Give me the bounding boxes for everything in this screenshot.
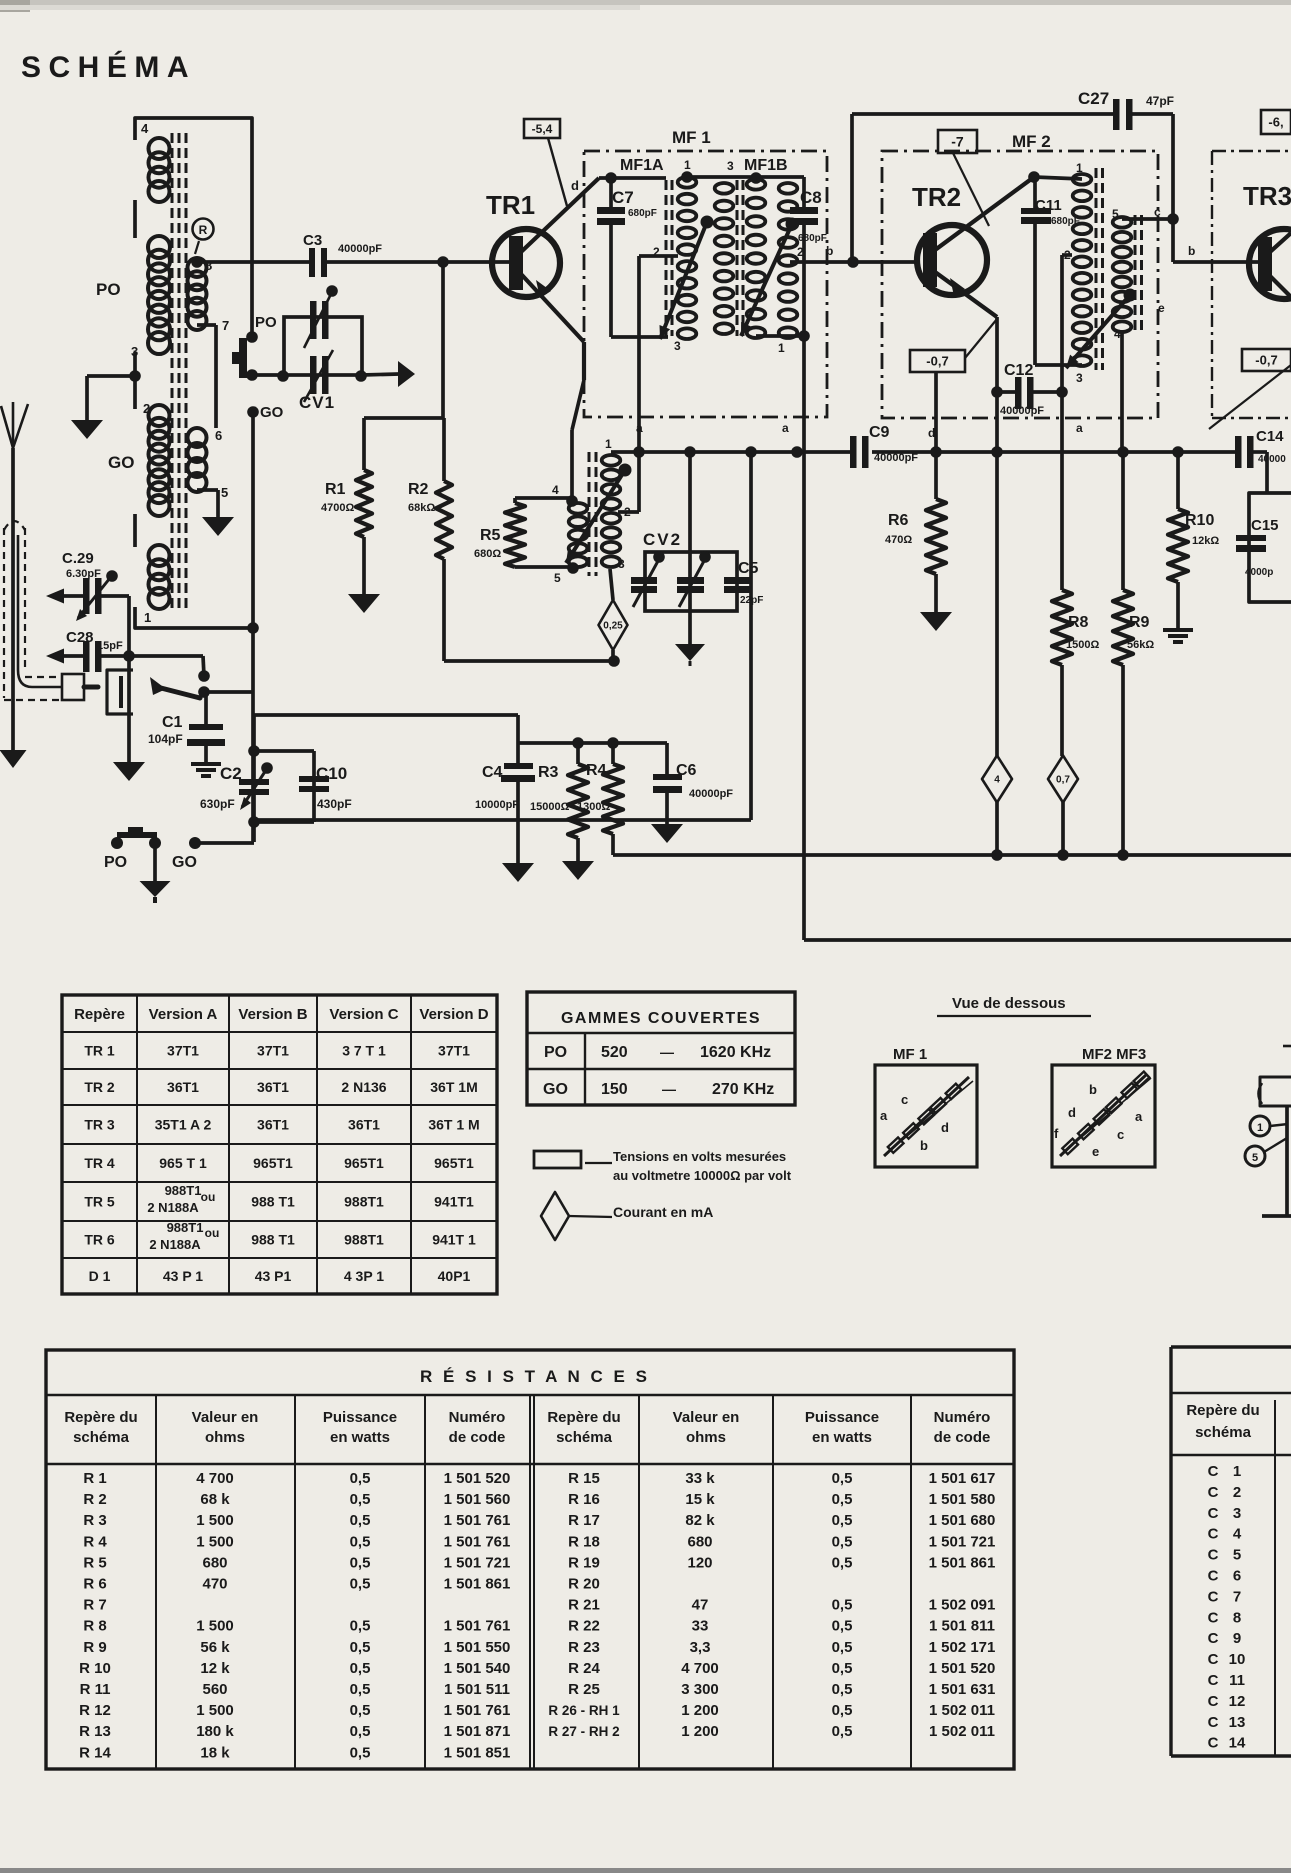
svg-text:68 k: 68 k [200,1491,230,1508]
wire node b to TR2 [790,244,916,268]
svg-text:CV1: CV1 [299,393,335,412]
svg-text:1 200: 1 200 [681,1702,719,1719]
ground under C28 junction [113,762,145,781]
svg-text:R 8: R 8 [83,1618,106,1635]
svg-text:13: 13 [1229,1714,1246,1731]
switch wafer arm [150,677,210,698]
svg-text:b: b [920,1138,928,1153]
wire C27 to c node down [1171,114,1175,262]
wire MF2 pin5 to c node [1122,205,1179,225]
svg-text:1 200: 1 200 [681,1723,719,1740]
transistor TR3 [1243,181,1291,299]
svg-text:0,7: 0,7 [1056,775,1070,786]
svg-text:941T1: 941T1 [434,1194,474,1210]
svg-text:D 1: D 1 [89,1268,111,1284]
svg-text:c: c [1117,1127,1124,1142]
diamond 0,7 current [1048,756,1078,856]
resistor R8 [1052,392,1099,756]
svg-text:R8: R8 [1068,614,1089,631]
svg-text:0,5: 0,5 [832,1681,853,1698]
CV1 lower section [304,350,333,402]
svg-text:0,5: 0,5 [832,1723,853,1740]
svg-text:1 501 861: 1 501 861 [929,1554,996,1571]
svg-text:R9: R9 [1129,614,1150,631]
svg-text:36T1: 36T1 [257,1079,289,1095]
svg-text:180 k: 180 k [196,1723,234,1740]
ground under CV2 [675,611,705,666]
svg-text:TR 4: TR 4 [84,1155,115,1171]
svg-text:TR 5: TR 5 [84,1194,115,1210]
svg-text:680Ω: 680Ω [474,548,501,560]
svg-text:12kΩ: 12kΩ [1192,535,1219,547]
capacitor C29 variable [46,550,129,621]
svg-text:104pF: 104pF [148,732,183,746]
svg-text:C: C [1208,1568,1219,1585]
svg-text:Repère: Repère [74,1006,125,1023]
big box right vertical [254,452,751,820]
svg-text:Puissance: Puissance [805,1409,879,1426]
svg-text:Version B: Version B [238,1006,307,1023]
svg-text:1: 1 [1233,1463,1241,1480]
svg-text:12: 12 [1229,1693,1246,1710]
svg-text:4: 4 [552,483,559,497]
diamond 4 current [982,756,1012,856]
svg-text:R3: R3 [538,764,559,781]
svg-text:0,5: 0,5 [832,1533,853,1550]
svg-text:15pF: 15pF [97,640,123,652]
svg-text:R 4: R 4 [83,1533,107,1550]
svg-text:ou: ou [205,1226,220,1240]
svg-text:8: 8 [1233,1609,1241,1626]
svg-text:965T1: 965T1 [434,1155,474,1171]
svg-text:1: 1 [778,341,785,355]
oscillator transformer [552,437,632,585]
legend voltage box [534,1149,792,1183]
label MF2 [1012,132,1051,151]
svg-text:R 25: R 25 [568,1681,600,1698]
svg-text:R 1: R 1 [83,1470,106,1487]
ground under pin5 [202,517,234,536]
circled R trimmer [193,219,214,255]
svg-text:c: c [901,1092,908,1107]
svg-text:10000pF: 10000pF [475,799,519,811]
svg-text:4 700: 4 700 [681,1660,719,1677]
svg-text:MF 1: MF 1 [672,128,711,147]
svg-text:630pF: 630pF [200,797,235,811]
node d label [571,172,617,193]
C15 box [1249,493,1291,602]
svg-text:2 N188A: 2 N188A [149,1237,201,1252]
svg-text:680pF: 680pF [628,208,657,219]
svg-text:18 k: 18 k [200,1744,230,1761]
svg-text:au voltmetre 10000Ω par volt: au voltmetre 10000Ω par volt [613,1168,792,1183]
svg-text:b: b [1089,1082,1097,1097]
svg-text:C: C [1208,1484,1219,1501]
svg-text:ohms: ohms [686,1429,726,1446]
resistor R9 [1113,452,1154,855]
versions table [62,995,497,1294]
svg-text:C: C [1208,1609,1219,1626]
resistor R10 [1168,452,1219,628]
svg-text:C15: C15 [1251,517,1279,534]
svg-text:3: 3 [727,159,734,173]
svg-text:0,5: 0,5 [350,1660,371,1677]
svg-text:ohms: ohms [205,1429,245,1446]
svg-text:0,5: 0,5 [350,1744,371,1761]
svg-text:1 501 617: 1 501 617 [929,1470,996,1487]
svg-text:3,3: 3,3 [690,1639,711,1656]
svg-text:Repère du: Repère du [1186,1402,1259,1419]
svg-text:0,5: 0,5 [350,1639,371,1656]
coil GO primary upper [149,405,170,516]
svg-text:1: 1 [1076,161,1083,175]
svg-text:68kΩ: 68kΩ [408,502,435,514]
svg-text:GO: GO [172,854,197,871]
svg-text:4: 4 [141,121,149,136]
wire MF1A tap2 [639,256,678,452]
svg-text:TR 2: TR 2 [84,1079,115,1095]
svg-text:1 501 520: 1 501 520 [444,1470,511,1487]
transistor TR1 [486,178,666,342]
svg-text:PO: PO [104,854,127,871]
transformer MF2 [1064,161,1142,385]
svg-text:R: R [199,223,208,237]
svg-text:MF2 MF3: MF2 MF3 [1082,1046,1146,1063]
svg-text:988T1: 988T1 [344,1232,384,1248]
wire GO column [247,412,259,842]
svg-text:0,5: 0,5 [832,1470,853,1487]
svg-text:C7: C7 [612,188,634,207]
svg-text:1: 1 [1257,1122,1263,1134]
wire pin8 to C3 [191,256,310,268]
svg-text:1 501 761: 1 501 761 [444,1512,511,1529]
wire d column [928,372,936,452]
svg-text:a: a [1135,1109,1143,1124]
resistor R6 [885,452,946,613]
svg-text:988T1: 988T1 [167,1220,204,1235]
svg-text:R 19: R 19 [568,1554,600,1571]
svg-text:1: 1 [684,158,691,172]
svg-text:3 7 T 1: 3 7 T 1 [342,1043,386,1059]
svg-text:988T1: 988T1 [165,1183,202,1198]
svg-text:Numéro: Numéro [934,1409,991,1426]
svg-text:430pF: 430pF [317,797,352,811]
svg-text:C5: C5 [738,560,759,577]
svg-text:1 501 761: 1 501 761 [444,1533,511,1550]
svg-text:Version C: Version C [329,1006,398,1023]
svg-text:37T1: 37T1 [257,1043,289,1059]
svg-text:0,5: 0,5 [350,1618,371,1635]
svg-text:1 500: 1 500 [196,1702,234,1719]
svg-text:1 501 580: 1 501 580 [929,1491,996,1508]
svg-text:R6: R6 [888,512,909,529]
svg-text:6: 6 [1233,1568,1241,1585]
svg-text:965T1: 965T1 [253,1155,293,1171]
svg-text:a: a [782,421,789,435]
svg-text:C: C [1208,1651,1219,1668]
svg-text:e: e [1158,301,1165,315]
svg-text:1 501 631: 1 501 631 [929,1681,996,1698]
svg-text:GAMMES COUVERTES: GAMMES COUVERTES [561,1010,761,1027]
antenna jack [107,670,133,714]
resistor R5 [474,498,575,567]
svg-text:5: 5 [1233,1547,1241,1564]
wire TR1 emitter down [572,342,584,501]
svg-text:—: — [660,1044,674,1060]
svg-text:5: 5 [1112,207,1119,221]
transistor TR2 [912,177,1034,317]
svg-text:3: 3 [131,344,138,359]
svg-text:R 17: R 17 [568,1512,600,1529]
ground under R3 [562,861,594,880]
rail W1 [614,446,1239,458]
svg-text:C: C [1208,1588,1219,1605]
wire switch to GO column [204,690,253,694]
svg-text:2: 2 [1233,1484,1241,1501]
ground bars under C1 [191,762,221,778]
leader line -0,7 TR2 [965,319,997,358]
svg-text:R 26 - RH 1: R 26 - RH 1 [548,1703,620,1718]
svg-text:1 501 851: 1 501 851 [444,1744,511,1761]
voltage box -0,7 TR2 [910,350,965,372]
svg-text:1 502 171: 1 502 171 [929,1639,996,1656]
svg-text:R 22: R 22 [568,1618,600,1635]
capacitor C10 [254,751,352,822]
svg-text:C: C [1208,1693,1219,1710]
svg-text:c: c [1154,205,1161,219]
wire pin5 to ground [197,490,218,518]
svg-text:schéma: schéma [73,1429,130,1446]
svg-text:40000pF: 40000pF [874,452,918,464]
CV1 common node [246,369,284,381]
svg-text:MF 2: MF 2 [1012,132,1051,151]
resistances table [46,1350,1014,1769]
svg-text:ou: ou [201,1190,216,1204]
svg-text:36T 1M: 36T 1M [430,1079,477,1095]
svg-text:36T1: 36T1 [348,1117,380,1133]
wire MF1B column down [802,336,806,940]
CV1 box [284,317,362,412]
coil GO primary lower [149,545,170,609]
svg-text:C: C [1208,1714,1219,1731]
capacitor C5 [724,560,763,606]
svg-text:1 501 721: 1 501 721 [444,1554,511,1571]
title SCHEMA [21,50,196,84]
bottom rail 1 [613,849,1291,861]
svg-text:470Ω: 470Ω [885,534,912,546]
svg-text:R 10: R 10 [79,1660,111,1677]
svg-text:GO: GO [108,453,134,472]
svg-text:47: 47 [692,1597,709,1614]
svg-text:C.29: C.29 [62,550,94,567]
svg-text:R 23: R 23 [568,1639,600,1656]
svg-text:R 3: R 3 [83,1512,106,1529]
svg-text:f: f [1054,1126,1059,1141]
svg-text:b: b [826,244,833,258]
ground under tap2 [71,420,103,439]
svg-text:150: 150 [601,1081,628,1098]
wire osc pin1 to rail [611,450,614,454]
shielded lead dashed [4,521,60,700]
svg-text:0,5: 0,5 [350,1702,371,1719]
wire C4 R3 R4 row [518,737,667,749]
svg-text:1 502 011: 1 502 011 [929,1723,995,1740]
capacitor C11 [1021,177,1082,365]
svg-text:C12: C12 [1004,362,1033,379]
svg-text:Repère du: Repère du [547,1409,620,1426]
svg-text:-5,4: -5,4 [532,122,553,136]
MF2 dash-dot box [882,151,1158,418]
svg-text:120: 120 [687,1554,712,1571]
svg-text:TR 1: TR 1 [84,1043,115,1059]
wire tap3 to ground [87,370,141,421]
svg-text:GO: GO [543,1081,568,1098]
antenna lead wire [18,535,62,687]
svg-text:0,5: 0,5 [350,1576,371,1593]
svg-text:PO: PO [255,314,277,331]
svg-text:R 11: R 11 [80,1681,111,1698]
svg-text:R 6: R 6 [83,1576,106,1593]
transformer core [172,133,186,612]
svg-text:0,5: 0,5 [832,1639,853,1656]
svg-text:schéma: schéma [556,1429,613,1446]
svg-text:43 P1: 43 P1 [255,1268,292,1284]
diamond 0,25 current [599,569,628,667]
ground under C4 [502,863,534,882]
CV1 upper section [304,285,338,348]
svg-text:40000: 40000 [1258,454,1286,465]
wire osc tap2 [618,446,645,512]
svg-text:1 501 550: 1 501 550 [444,1639,511,1656]
svg-text:CV2: CV2 [643,530,682,549]
wire PO contact [246,314,277,343]
svg-text:C: C [1208,1735,1219,1752]
wire CV2 top column [684,446,696,611]
capacitor C2 variable [200,715,273,842]
svg-text:R 7: R 7 [83,1597,106,1614]
svg-text:56kΩ: 56kΩ [1127,639,1154,651]
svg-text:965 T 1: 965 T 1 [159,1155,207,1171]
svg-text:82 k: 82 k [685,1512,715,1529]
svg-text:C: C [1208,1526,1219,1543]
condensateurs table partial [1171,1347,1291,1756]
svg-text:1 501 520: 1 501 520 [929,1660,996,1677]
svg-text:Valeur en: Valeur en [673,1409,740,1426]
svg-text:a: a [636,421,643,435]
CV2 box [643,530,737,611]
svg-text:988T1: 988T1 [344,1194,384,1210]
svg-text:43 P 1: 43 P 1 [163,1268,203,1284]
svg-text:R 24: R 24 [568,1660,600,1677]
capacitor C1 [148,692,225,762]
svg-text:MF 1: MF 1 [893,1046,927,1063]
wire junction to ground [127,656,131,763]
antenna [1,402,28,757]
node GO [247,404,283,421]
coil secondary lower [188,428,207,492]
push button PO [232,338,247,378]
svg-text:1 501 761: 1 501 761 [444,1702,511,1719]
capacitor C12 [997,362,1068,417]
svg-text:C1: C1 [162,714,183,731]
svg-text:d: d [1068,1105,1076,1120]
svg-text:a: a [1076,421,1083,435]
capacitor C28 [46,629,203,672]
svg-text:TR3: TR3 [1243,181,1291,211]
voltage box -7 [938,130,977,153]
wire TR1 base bias [364,262,443,418]
svg-text:35T1 A 2: 35T1 A 2 [155,1117,212,1133]
svg-text:33 k: 33 k [685,1470,715,1487]
svg-text:b: b [1188,244,1195,258]
svg-text:d: d [941,1120,949,1135]
svg-text:1: 1 [605,437,612,451]
MF1 bottom view [875,1046,977,1167]
svg-text:Vue de dessous: Vue de dessous [952,995,1066,1012]
wire C3 to TR1 [327,256,489,268]
svg-text:TR1: TR1 [486,190,535,220]
svg-text:C4: C4 [482,764,503,781]
svg-text:en watts: en watts [330,1429,390,1446]
svg-text:R 14: R 14 [79,1744,111,1761]
svg-text:C: C [1208,1505,1219,1522]
leader line -7 box [953,153,989,226]
svg-text:R 16: R 16 [568,1491,600,1508]
svg-text:1500Ω: 1500Ω [1066,639,1099,651]
resistor R4 [577,743,623,855]
svg-text:C: C [1208,1547,1219,1564]
capacitor C27 [852,89,1174,130]
svg-text:—: — [662,1081,676,1097]
wire C28 to switch [198,656,210,682]
bottom rail 2 [804,938,1291,942]
svg-text:36T1: 36T1 [167,1079,199,1095]
svg-text:4700Ω: 4700Ω [321,502,354,514]
svg-text:36T 1 M: 36T 1 M [428,1117,479,1133]
coil secondary upper [188,258,207,330]
svg-text:d: d [928,426,935,440]
MF3 dash-dot box [1212,151,1291,418]
capacitor C4 [475,743,535,864]
svg-text:965T1: 965T1 [344,1155,384,1171]
svg-text:Numéro: Numéro [449,1409,506,1426]
svg-text:R 12: R 12 [79,1702,111,1719]
svg-text:270 KHz: 270 KHz [712,1081,774,1098]
wire TR3 base [1173,244,1264,262]
scan top edge band [0,0,1291,5]
antenna plug [62,674,98,700]
svg-text:R 2: R 2 [83,1491,106,1508]
svg-text:0,5: 0,5 [832,1660,853,1677]
svg-text:40000pF: 40000pF [338,243,382,255]
svg-text:1 501 811: 1 501 811 [929,1618,995,1635]
svg-text:3: 3 [1233,1505,1241,1522]
svg-text:Version A: Version A [149,1006,218,1023]
svg-text:C2: C2 [220,764,242,783]
svg-text:Tensions en volts mesurées: Tensions en volts mesurées [613,1149,786,1164]
svg-text:4: 4 [1114,327,1121,341]
svg-text:9: 9 [1233,1630,1241,1647]
svg-text:0,5: 0,5 [350,1470,371,1487]
transformer MF1A [620,157,743,353]
svg-text:C11: C11 [1035,197,1062,214]
gammes couvertes table [527,992,795,1105]
svg-text:0,5: 0,5 [350,1554,371,1571]
wire MF1A top to MF1B [687,175,756,179]
svg-text:56 k: 56 k [200,1639,230,1656]
svg-text:4 3P 1: 4 3P 1 [344,1268,384,1284]
label GO [108,453,134,472]
